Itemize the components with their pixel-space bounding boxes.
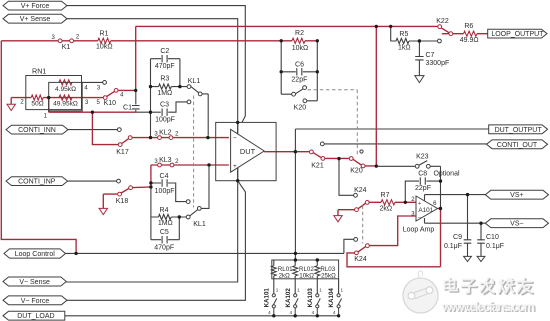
wire KL1 lower contact riser	[201, 167, 209, 209]
svg-text:1MΩ: 1MΩ	[158, 220, 173, 227]
wire DUT output through K21 K20	[264, 152, 376, 166]
wire RN1 row	[11, 97, 103, 99]
svg-text:1: 1	[341, 287, 344, 292]
resistor R3	[159, 84, 172, 89]
svg-text:DUT_OUTPUT: DUT_OUTPUT	[495, 127, 543, 134]
wire K22 to R6 to LOOP_OUTPUT	[442, 33, 488, 35]
wire RL02 leads	[294, 260, 296, 294]
resistor network RN1 inner box	[49, 82, 82, 111]
wire R3 row to KL1 pole	[151, 86, 188, 88]
op-amp A101	[416, 196, 438, 221]
svg-text:4: 4	[333, 310, 336, 315]
junction (136,90)	[134, 89, 137, 92]
svg-text:+: +	[233, 163, 237, 170]
junction (440,181)	[439, 179, 442, 182]
wire C7 branch	[418, 41, 420, 76]
watermark logo	[403, 271, 438, 313]
svg-text:4: 4	[268, 310, 271, 315]
wire red rail drop to K20	[375, 26, 377, 166]
svg-text:DUT_LOAD: DUT_LOAD	[17, 313, 54, 320]
wire C5 loop and lower-left rail	[151, 187, 179, 240]
junction (419,41)	[418, 39, 421, 42]
switch KL2	[158, 136, 162, 140]
junction (376,26)	[375, 25, 378, 28]
svg-text:Loop Control: Loop Control	[15, 251, 56, 258]
resistor RL01	[271, 266, 276, 276]
wire CONTI_OUT	[324, 143, 486, 145]
svg-text:KA103: KA103	[307, 288, 314, 308]
resistor RL02	[293, 266, 298, 276]
svg-text:K17: K17	[116, 149, 129, 156]
switch K20 lower	[349, 157, 353, 161]
svg-text:K20: K20	[294, 104, 307, 111]
junction (376,166)	[375, 164, 378, 167]
wire DUT bottom to V- Force	[67, 181, 245, 301]
wire V+ Sense through DUT box	[237, 122, 239, 180]
resistor RL03	[315, 266, 320, 276]
junction (281,72)	[280, 70, 283, 73]
switch K23 wires and blade	[378, 161, 441, 207]
node CONTI_OUT start	[320, 142, 324, 146]
op-amp DUT	[231, 129, 265, 172]
junction (49,98)	[47, 96, 50, 99]
junction (238,181)	[236, 179, 239, 182]
wire C10 branch	[480, 223, 482, 256]
svg-text:C5: C5	[160, 229, 169, 236]
svg-text:C7: C7	[426, 52, 435, 59]
svg-text:K20: K20	[350, 168, 363, 175]
ground K18 (red)	[99, 208, 107, 214]
port CONTI_OUT	[487, 140, 548, 149]
svg-text:V− Force: V− Force	[21, 298, 50, 305]
svg-text:KA102: KA102	[285, 288, 292, 308]
wire C6 row	[281, 71, 317, 73]
svg-text:10kΩ: 10kΩ	[299, 272, 314, 279]
port LOOP_OUTPUT	[488, 29, 547, 38]
wire RL03 leads	[316, 260, 318, 294]
wire Loop Control to K24	[66, 239, 354, 253]
svg-text:K21: K21	[311, 162, 324, 169]
port V+ Force	[3, 1, 67, 10]
svg-text:2kΩ: 2kΩ	[379, 205, 392, 212]
wire top red rail	[136, 26, 438, 90]
wire RL01 leads	[273, 260, 275, 294]
svg-text:50Ω: 50Ω	[31, 101, 43, 108]
switch KL1 upper	[187, 85, 191, 89]
wire KL3 line to DUT +	[151, 164, 229, 166]
svg-text:3300pF: 3300pF	[426, 60, 450, 67]
resistor R2	[292, 38, 305, 43]
resistor R1	[98, 38, 111, 43]
wire V+ Sense through DUT to V- Sense	[66, 19, 237, 282]
svg-text:A101: A101	[418, 207, 433, 214]
resistor R6	[464, 31, 477, 36]
dashed relay link K24	[362, 206, 364, 244]
capacitor C6	[297, 68, 302, 75]
resistor network RN1 outer box	[26, 76, 82, 110]
svg-text:C9: C9	[453, 234, 462, 241]
svg-text:25kΩ: 25kΩ	[321, 272, 336, 279]
wire A101 output stub	[438, 208, 441, 210]
junction (274,316)	[272, 314, 275, 317]
junction (295,316)	[294, 314, 297, 317]
ground RN1 pin2 (red)	[7, 104, 15, 110]
ground C10	[477, 256, 485, 261]
junction (209,165)	[207, 163, 210, 166]
svg-text:R5: R5	[399, 31, 408, 38]
resistor R7	[381, 200, 395, 205]
junction (92,112)	[91, 111, 94, 114]
svg-text:K24: K24	[354, 256, 367, 263]
svg-text:K10: K10	[104, 100, 117, 107]
svg-text:R3: R3	[160, 76, 169, 83]
node CONTI_INP end	[117, 179, 121, 183]
node RN1 pin 3 contact	[103, 81, 107, 85]
svg-text:KL3: KL3	[159, 157, 172, 164]
capacitor C1	[132, 106, 140, 109]
svg-text:0.1μF: 0.1μF	[486, 243, 504, 250]
svg-text:KA101: KA101	[263, 288, 270, 308]
wire R7 row to pin 2	[369, 201, 416, 203]
svg-text:C1: C1	[123, 104, 132, 111]
svg-text:4.95kΩ: 4.95kΩ	[55, 86, 76, 93]
junction (481,223)	[479, 222, 482, 225]
capacitor C2	[162, 55, 167, 62]
switch K22	[438, 25, 442, 29]
switch K24 upper	[354, 193, 358, 197]
capacitor C8	[420, 177, 425, 184]
wire K24 pole to output feedback	[347, 209, 441, 267]
svg-text:RN1: RN1	[32, 67, 46, 76]
svg-text:V+ Sense: V+ Sense	[20, 16, 51, 23]
switch KL1 lower blade	[190, 210, 198, 216]
svg-text:470pF: 470pF	[155, 63, 175, 70]
switch KL1 lower	[186, 215, 190, 219]
svg-text:R4: R4	[160, 207, 169, 214]
svg-text:DUT: DUT	[240, 147, 256, 156]
wire DUT_LOAD rail	[65, 315, 339, 317]
switch K20 upper blade and wires	[281, 88, 317, 101]
wire KA104 lead	[338, 279, 340, 294]
svg-text:−: −	[233, 135, 237, 142]
port Loop Control	[4, 249, 66, 258]
svg-text:R1: R1	[100, 30, 109, 37]
svg-text:100pF: 100pF	[155, 116, 175, 123]
junction (317,41)	[316, 39, 319, 42]
svg-text:C10: C10	[486, 234, 499, 241]
port DUT_OUTPUT	[489, 125, 548, 134]
svg-text:V+ Force: V+ Force	[21, 3, 50, 10]
svg-text:49.9Ω: 49.9Ω	[460, 37, 479, 44]
svg-text:2kΩ: 2kΩ	[279, 272, 291, 279]
wire pin 3 to K24 lower throw	[369, 216, 416, 246]
switch K24 lower	[354, 238, 358, 242]
svg-text:KA104: KA104	[328, 288, 335, 308]
svg-text:C3: C3	[160, 102, 169, 109]
dashed relay link KL1	[193, 96, 195, 208]
port V- Sense	[3, 277, 66, 286]
node K20 lower spare contact	[360, 150, 363, 153]
resistor RN1 50 ohm	[31, 95, 43, 100]
wire RN1 pin4 to pin3 contact	[82, 81, 102, 83]
resistor R5	[396, 38, 409, 43]
ground K24 (red)	[334, 216, 342, 222]
junction (208,138)	[206, 136, 209, 139]
wire RN1 pin1 line	[49, 98, 136, 113]
junction (468,195)	[466, 193, 469, 196]
svg-text:K1: K1	[62, 44, 71, 51]
junction (151,187)	[149, 185, 152, 188]
wire RN1 pin2 to ground	[10, 98, 12, 105]
wire CONTI_INN	[68, 129, 117, 131]
wire R2 network rails	[281, 41, 317, 101]
wire C8 feedback loop	[405, 181, 440, 202]
junction (317,316)	[316, 314, 319, 317]
switch K21	[310, 150, 314, 154]
switch K20 upper	[292, 92, 296, 96]
port CONTI_INP	[6, 177, 68, 186]
port V+ Sense	[3, 14, 67, 23]
wire R4 row	[151, 216, 186, 218]
wire drop to K17	[92, 112, 118, 144]
svg-text:100pF: 100pF	[155, 188, 175, 195]
svg-text:1kΩ: 1kΩ	[398, 45, 411, 52]
svg-text:4: 4	[290, 310, 293, 315]
wire K24 pole to red ground	[338, 210, 355, 216]
wire KL3 bend down to K18 node	[150, 165, 152, 187]
RL resistor pack box	[272, 260, 339, 279]
svg-text:1: 1	[276, 287, 279, 292]
junction (151,183)	[149, 181, 152, 184]
ground C7	[415, 76, 424, 83]
wire K18 pole to ground	[103, 194, 118, 208]
port DUT_LOAD	[3, 311, 65, 320]
node R5 contact	[438, 39, 442, 43]
junction (317,72)	[316, 70, 319, 73]
wire CONTI_INP	[68, 180, 117, 182]
capacitor C10	[477, 240, 485, 243]
junction (339,316)	[337, 314, 340, 317]
dashed relay link K20	[308, 90, 358, 155]
svg-text:10kΩ: 10kΩ	[292, 45, 309, 52]
svg-text:Optional: Optional	[433, 171, 460, 178]
switch K24 upper blade	[358, 203, 365, 208]
junction (150,112)	[149, 111, 152, 114]
svg-text:VS+: VS+	[510, 192, 523, 199]
switch KL1 upper blade and contact drop	[191, 87, 208, 136]
svg-text:1MΩ: 1MΩ	[157, 90, 172, 97]
svg-text:KL1: KL1	[188, 78, 201, 85]
svg-text:C4: C4	[160, 173, 169, 180]
junction (391,26)	[389, 25, 392, 28]
wire VS+ line and pin7 stub	[425, 195, 486, 201]
port VS-	[485, 219, 548, 228]
node CONTI_INN end	[117, 128, 121, 132]
wire K21 node down to K24 upper throw	[339, 159, 354, 196]
port CONTI_INN	[6, 125, 68, 134]
svg-text:CONTI_INN: CONTI_INN	[18, 127, 56, 134]
wire V+ line K1 R1 to R2	[1, 40, 317, 42]
switch K22 blade	[441, 28, 449, 33]
svg-text:4: 4	[312, 310, 315, 315]
capacitor C5	[162, 236, 167, 243]
relay switch KA104	[337, 294, 340, 297]
relay switch KA103	[316, 294, 319, 297]
svg-text:K22: K22	[436, 18, 449, 25]
junction (150,138)	[149, 136, 152, 139]
switch K17 blade and KL2 line to DUT -	[122, 138, 229, 144]
junction (76,253)	[74, 252, 77, 255]
svg-text:KL1: KL1	[193, 221, 206, 228]
svg-text:1: 1	[319, 287, 322, 292]
svg-text:C8: C8	[418, 170, 427, 177]
switch K23	[415, 164, 419, 168]
wire C1 vertical	[135, 90, 137, 112]
wire C9 branch	[467, 195, 469, 257]
relay switch KA102	[294, 294, 297, 297]
junction (339,159)	[337, 157, 340, 160]
switch K18	[118, 192, 122, 196]
svg-text:R7: R7	[381, 192, 390, 199]
svg-text:−: −	[418, 216, 421, 222]
junction (180,87)	[178, 85, 181, 88]
capacitor C9	[464, 240, 472, 243]
svg-text:www.elecfans.com: www.elecfans.com	[441, 299, 535, 314]
switch K24 lower blade	[358, 247, 366, 252]
svg-text:CONTI_INP: CONTI_INP	[18, 179, 56, 186]
svg-text:VS−: VS−	[510, 221, 523, 228]
svg-text:LOOP_OUTPUT: LOOP_OUTPUT	[491, 31, 544, 38]
junction (150,87)	[149, 85, 152, 88]
watermark text (vector CJK glyphs)	[446, 279, 459, 292]
svg-text:10kΩ: 10kΩ	[96, 44, 113, 51]
wire VS- line and pin4 stub	[425, 218, 486, 223]
junction (405,202)	[404, 201, 407, 204]
svg-text:C6: C6	[295, 61, 304, 68]
svg-text:KL2: KL2	[159, 129, 172, 136]
junction (281,41)	[280, 39, 283, 42]
ground C9	[464, 256, 472, 261]
wire C4 row to KL1 lower throw	[151, 183, 186, 202]
junction (179,217)	[178, 215, 181, 218]
svg-text:R6: R6	[464, 23, 473, 30]
wire R5 row	[391, 26, 438, 41]
svg-text:K18: K18	[116, 198, 129, 205]
capacitor C3	[162, 109, 167, 116]
capacitor C7	[415, 57, 423, 60]
svg-text:Loop Amp: Loop Amp	[403, 226, 435, 233]
svg-text:49.95kΩ: 49.95kΩ	[53, 101, 78, 108]
svg-text:0.1μF: 0.1μF	[444, 243, 462, 250]
junction (440,208)	[439, 207, 442, 210]
svg-text:22pF: 22pF	[291, 76, 307, 83]
switch K17	[118, 143, 122, 147]
switch KL3	[158, 163, 162, 167]
junction (295,152)	[294, 150, 297, 153]
wire C2 loop and rails	[151, 59, 180, 138]
capacitor C4	[162, 179, 167, 186]
junction (317,260)	[316, 258, 319, 261]
wire DUT_OUTPUT tap	[295, 129, 488, 260]
svg-text:22pF: 22pF	[415, 185, 431, 192]
svg-text:CONTI_OUT: CONTI_OUT	[497, 142, 538, 149]
switch K10	[103, 96, 107, 100]
resistor RN1 4.95k	[59, 80, 72, 85]
resistor RN1 49.95k	[59, 95, 72, 100]
switch K18 blade and wire to rail	[121, 187, 151, 193]
svg-text:C2: C2	[160, 48, 169, 55]
DUT socket box	[216, 122, 276, 180]
switch K1	[58, 39, 62, 43]
wire V+ Force to DUT box	[67, 6, 245, 123]
junction (295,253)	[294, 252, 297, 255]
port VS+	[485, 190, 548, 199]
relay switch KA101	[272, 294, 275, 297]
svg-text:K23: K23	[416, 153, 429, 160]
port V- Force	[3, 296, 67, 305]
wire left red drop to Loop Control	[1, 41, 76, 254]
svg-text:+: +	[418, 201, 421, 207]
svg-text:R2: R2	[295, 30, 304, 37]
wire C3 right to KL1 contact	[168, 102, 187, 112]
resistor R4	[158, 214, 171, 219]
svg-text:1: 1	[297, 287, 300, 292]
switch K10 blade and wire	[107, 90, 136, 96]
svg-text:V− Sense: V− Sense	[19, 279, 50, 286]
junction (295,260)	[294, 258, 297, 261]
svg-text:470pF: 470pF	[154, 244, 174, 251]
wire pin1 line to C3	[136, 111, 161, 113]
junction (238,122)	[236, 121, 239, 124]
